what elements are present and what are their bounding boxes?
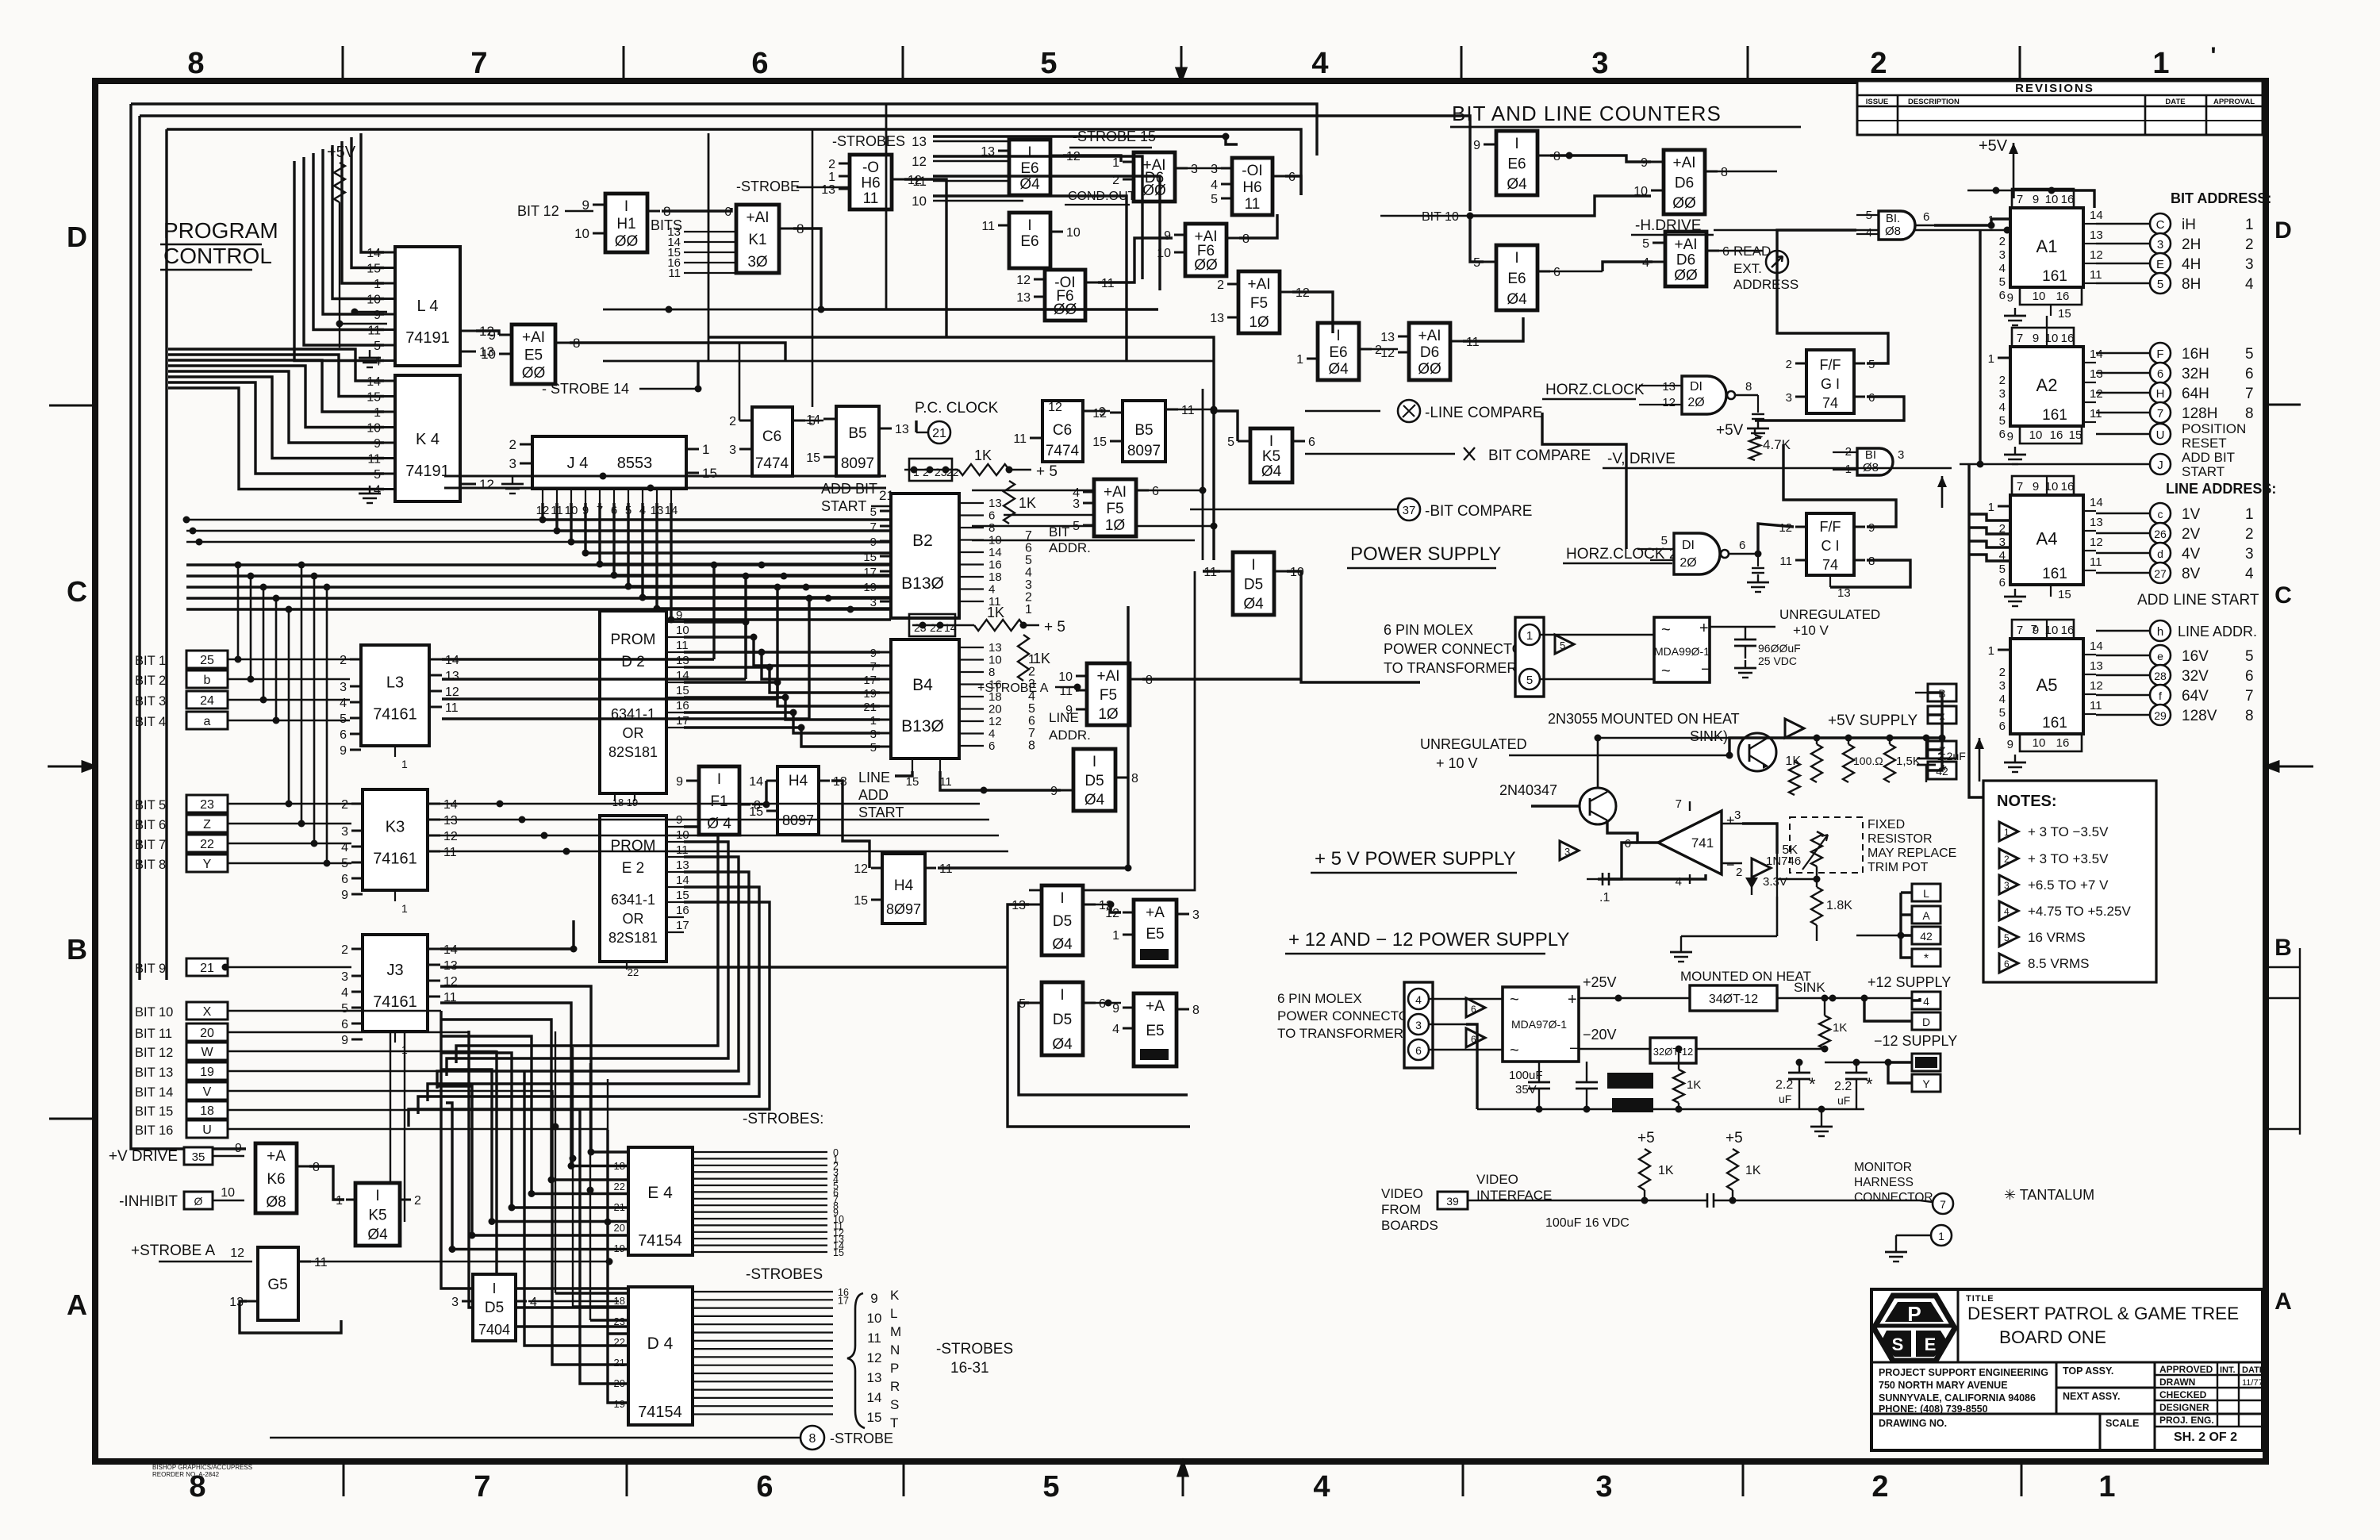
- svg-text:2: 2: [1736, 866, 1742, 879]
- svg-text:12: 12: [854, 862, 868, 876]
- svg-text:3: 3: [1192, 908, 1200, 922]
- svg-text:750 NORTH MARY AVENUE: 750 NORTH MARY AVENUE: [1879, 1380, 2008, 1391]
- AND gate B1 second: [1857, 448, 1893, 475]
- svg-text:A4: A4: [2036, 529, 2058, 549]
- svg-text:BIT AND LINE COUNTERS: BIT AND LINE COUNTERS: [1452, 102, 1722, 125]
- svg-text:F: F: [2156, 348, 2163, 361]
- svg-text:11: 11: [1181, 404, 1195, 417]
- svg-text:uF: uF: [1779, 1093, 1791, 1105]
- svg-text:TITLE: TITLE: [1966, 1294, 1994, 1304]
- svg-text:3: 3: [729, 444, 736, 457]
- svg-text:6341-1: 6341-1: [611, 892, 655, 908]
- svg-text:1K: 1K: [1019, 495, 1036, 511]
- svg-text:1.8K: 1.8K: [1826, 899, 1852, 912]
- svg-text:ØØ: ØØ: [1418, 361, 1441, 378]
- svg-text:13: 13: [1380, 331, 1395, 344]
- svg-text:1K: 1K: [1833, 1021, 1847, 1035]
- svg-text:Y: Y: [203, 858, 212, 871]
- svg-text:6: 6: [1415, 1044, 1422, 1057]
- svg-text:9: 9: [2033, 193, 2039, 206]
- svg-text:B13Ø: B13Ø: [901, 574, 944, 593]
- wire molex-mda990: [1540, 634, 1654, 636]
- IC F1 inv: [699, 766, 739, 835]
- svg-text:3: 3: [1734, 808, 1741, 822]
- svg-text:16: 16: [676, 904, 689, 917]
- svg-text:+AI: +AI: [1672, 155, 1695, 171]
- wire E6-D6 right: [1550, 156, 1651, 162]
- wire c6 b5 verticals: [739, 343, 741, 421]
- svg-text:+4.75 TO +5.25V: +4.75 TO +5.25V: [2028, 904, 2131, 919]
- wire horz clock lines: [1542, 413, 1626, 549]
- svg-text:OR: OR: [623, 911, 644, 927]
- svg-text:BIT 10: BIT 10: [1422, 210, 1459, 224]
- svg-text:7: 7: [2017, 624, 2023, 637]
- svg-text:74161: 74161: [373, 851, 417, 868]
- svg-text:13: 13: [867, 1370, 882, 1385]
- svg-text:ADDR.: ADDR.: [1049, 540, 1091, 555]
- svg-text:TRIM POT: TRIM POT: [1868, 861, 1929, 874]
- IC D6 and top: [1134, 152, 1175, 202]
- svg-text:5: 5: [340, 712, 347, 726]
- svg-text:*: *: [1940, 762, 1947, 780]
- IC B2 8130: [891, 493, 959, 618]
- E2 bottom pin: [626, 962, 628, 970]
- svg-text:2.2uF: 2.2uF: [1937, 750, 1966, 762]
- svg-text:16: 16: [2056, 736, 2070, 750]
- svg-text:5: 5: [1642, 237, 1649, 251]
- svg-text:16-31: 16-31: [950, 1360, 989, 1377]
- svg-text:6: 6: [340, 728, 347, 742]
- resistor 1.5K upper: [1789, 762, 1800, 795]
- IC D6 and right: [1664, 150, 1705, 214]
- svg-text:H4: H4: [789, 773, 808, 789]
- svg-text:6: 6: [1308, 436, 1315, 449]
- svg-text:D6: D6: [1675, 175, 1694, 192]
- svg-text:A: A: [2274, 1288, 2292, 1315]
- ground ps mid: [1680, 944, 1682, 952]
- svg-text:15: 15: [854, 894, 868, 908]
- svg-text:3: 3: [451, 1296, 459, 1309]
- svg-text:7474: 7474: [1046, 443, 1080, 459]
- svg-text:H6: H6: [1242, 179, 1261, 196]
- wire j3 pin14: [440, 920, 574, 949]
- wire top bus 2: [140, 116, 1470, 211]
- svg-text:MDA97Ø-1: MDA97Ø-1: [1511, 1018, 1567, 1031]
- svg-text:K5: K5: [368, 1208, 386, 1224]
- svg-text:-STROBES:: -STROBES:: [743, 1111, 823, 1127]
- svg-text:5: 5: [1999, 414, 2006, 428]
- svg-text:1,5K: 1,5K: [1896, 755, 1921, 768]
- svg-text:S: S: [890, 1397, 899, 1412]
- IC K5 inv: [1250, 428, 1292, 482]
- svg-text:35: 35: [192, 1150, 205, 1164]
- svg-text:I: I: [1514, 136, 1518, 152]
- svg-text:10: 10: [867, 1311, 882, 1326]
- IC K5 inv bottom: [355, 1183, 400, 1246]
- svg-text:D5: D5: [1084, 773, 1104, 789]
- svg-text:BIT 12: BIT 12: [135, 1046, 173, 1060]
- IC H4 8097 b: [882, 854, 925, 924]
- svg-text:12: 12: [1048, 401, 1062, 414]
- svg-text:32V: 32V: [2182, 668, 2209, 685]
- svg-text:B4: B4: [912, 676, 933, 694]
- IC D5 inv b4: [1073, 749, 1115, 811]
- svg-text:26: 26: [2154, 528, 2167, 540]
- svg-text:1: 1: [2004, 827, 2010, 838]
- wire strobe13 run: [933, 136, 1238, 144]
- svg-text:-V, DRIVE: -V, DRIVE: [1607, 451, 1676, 467]
- svg-text:OR: OR: [623, 725, 644, 741]
- regulator 320T-12: [1650, 1038, 1696, 1063]
- svg-text:28: 28: [2154, 670, 2167, 682]
- wire molex2 wires: [1429, 998, 1503, 1000]
- svg-text:3: 3: [1025, 578, 1032, 592]
- svg-text:MONITOR: MONITOR: [1854, 1161, 1912, 1174]
- svg-text:6: 6: [1028, 715, 1035, 728]
- svg-text:Ø8: Ø8: [1885, 225, 1901, 238]
- wire +25 rail: [1579, 997, 1690, 999]
- wire strobeA long: [311, 1261, 609, 1262]
- svg-text:1: 1: [913, 466, 919, 478]
- svg-text:K: K: [890, 1288, 900, 1303]
- svg-text:5: 5: [2004, 932, 2010, 943]
- svg-text:14: 14: [2090, 209, 2103, 222]
- wire strobeA to f5: [1076, 687, 1077, 690]
- svg-text:Ø4: Ø4: [1052, 1036, 1073, 1053]
- svg-text:1: 1: [2098, 1470, 2115, 1504]
- svg-text:+12 SUPPLY: +12 SUPPLY: [1868, 974, 1951, 990]
- IC L3 74161: [361, 645, 429, 746]
- svg-text:DATE: DATE: [2165, 98, 2185, 106]
- svg-text:8: 8: [988, 521, 995, 535]
- B2 right pins: [959, 502, 984, 504]
- svg-text:3: 3: [1191, 163, 1198, 176]
- svg-text:+ 5 V POWER SUPPLY: + 5 V POWER SUPPLY: [1315, 848, 1516, 870]
- svg-text:-H.DRIVE: -H.DRIVE: [1635, 217, 1701, 234]
- B4 top pin boxes: [909, 614, 955, 636]
- resistor pullup +5V: [334, 163, 345, 202]
- svg-text:Ø4: Ø4: [367, 1227, 388, 1243]
- svg-text:−: −: [1569, 1040, 1579, 1058]
- svg-text:42: 42: [1920, 930, 1933, 943]
- svg-text:BIT 9: BIT 9: [135, 962, 166, 976]
- svg-text:3: 3: [1564, 846, 1570, 858]
- svg-text:6: 6: [1025, 542, 1032, 555]
- svg-text:+25V: +25V: [1583, 974, 1617, 990]
- svg-text:E 4: E 4: [647, 1184, 673, 1202]
- svg-text:a: a: [204, 715, 211, 728]
- wire f1-h4: [752, 804, 766, 805]
- svg-text:6: 6: [1099, 997, 1106, 1011]
- svg-text:4: 4: [1866, 226, 1872, 240]
- svg-text:15: 15: [863, 551, 877, 564]
- svg-text:~: ~: [1510, 991, 1519, 1008]
- wire left vertical bundle: [237, 565, 240, 659]
- svg-text:6: 6: [1999, 289, 2006, 302]
- wire pm12 bottom rail: [1477, 1108, 1864, 1110]
- svg-text:9: 9: [870, 536, 877, 549]
- NAND gate D1 top: [1682, 376, 1726, 414]
- svg-text:E 2: E 2: [622, 860, 645, 877]
- svg-text:~: ~: [1661, 621, 1671, 639]
- title block: [1871, 1289, 2263, 1450]
- svg-text:7: 7: [870, 520, 877, 534]
- svg-text:I: I: [492, 1281, 496, 1296]
- svg-text:2.2: 2.2: [1775, 1078, 1793, 1092]
- wire conn ties 2: [1901, 913, 1912, 916]
- svg-text:15: 15: [749, 805, 763, 819]
- svg-text:4: 4: [1415, 993, 1422, 1006]
- svg-text:BISHOP GRAPHICS/ACCUPRESS: BISHOP GRAPHICS/ACCUPRESS: [152, 1464, 252, 1471]
- svg-text:J 4: J 4: [567, 455, 589, 472]
- svg-text:12: 12: [988, 715, 1002, 728]
- svg-text:-OI: -OI: [1242, 163, 1262, 179]
- svg-text:10: 10: [221, 1186, 235, 1200]
- svg-text:8V: 8V: [2182, 566, 2201, 582]
- svg-text:7474: 7474: [755, 455, 789, 472]
- wire strobe11 run: [933, 176, 1160, 290]
- svg-text:7: 7: [474, 1470, 490, 1504]
- svg-text:13: 13: [676, 858, 689, 872]
- svg-text:11: 11: [867, 1331, 881, 1346]
- svg-text:13: 13: [988, 497, 1002, 510]
- svg-text:X: X: [203, 1005, 212, 1019]
- svg-text:c: c: [2158, 508, 2163, 520]
- svg-text:D5: D5: [485, 1300, 504, 1316]
- svg-text:✳ TANTALUM: ✳ TANTALUM: [2004, 1187, 2094, 1203]
- svg-text:9: 9: [2007, 291, 2013, 305]
- svg-text:A5: A5: [2036, 675, 2058, 695]
- wire E6 to D6 3: [1372, 348, 1398, 350]
- svg-text:K 4: K 4: [416, 431, 440, 448]
- node video out 7: [1933, 1193, 1953, 1214]
- svg-text:12: 12: [2090, 679, 2103, 693]
- svg-text:10: 10: [481, 347, 496, 362]
- svg-text:ØØ: ØØ: [1672, 195, 1696, 212]
- svg-text:13: 13: [2090, 367, 2103, 381]
- svg-text:R: R: [890, 1379, 900, 1394]
- svg-text:ØØ: ØØ: [522, 365, 546, 382]
- IC E4 74154: [628, 1147, 693, 1255]
- svg-text:14: 14: [749, 775, 763, 789]
- svg-text:2: 2: [1871, 1470, 1888, 1504]
- svg-text:5: 5: [1040, 47, 1057, 80]
- svg-text:+AI: +AI: [1418, 328, 1441, 344]
- svg-text:13: 13: [2090, 229, 2103, 242]
- svg-text:-STROBE: -STROBE: [830, 1431, 893, 1446]
- svg-text:10: 10: [1290, 566, 1304, 579]
- svg-text:17: 17: [838, 1295, 849, 1306]
- svg-text:13: 13: [988, 641, 1002, 655]
- wire j3 bottom drop: [390, 1031, 391, 1183]
- svg-text:F5: F5: [1106, 501, 1123, 517]
- svg-text:11: 11: [1779, 555, 1792, 568]
- svg-text:C I: C I: [1821, 538, 1839, 554]
- svg-text:12: 12: [230, 1246, 244, 1260]
- svg-text:10: 10: [2033, 736, 2046, 750]
- svg-text:74191: 74191: [405, 463, 450, 480]
- svg-text:L: L: [890, 1306, 897, 1321]
- svg-text:4H: 4H: [2182, 256, 2201, 273]
- svg-text:+ 3 TO +3.5V: + 3 TO +3.5V: [2028, 851, 2109, 866]
- svg-text:A: A: [1922, 909, 1930, 922]
- svg-text:b: b: [204, 674, 211, 687]
- svg-text:B: B: [2274, 935, 2292, 961]
- svg-text:37: 37: [1403, 504, 1416, 517]
- IC E6 inv lower right: [1496, 245, 1537, 310]
- svg-text:4: 4: [1999, 262, 2006, 275]
- svg-text:2: 2: [923, 466, 929, 478]
- svg-text:2.2: 2.2: [1834, 1080, 1852, 1093]
- IC K6 and: [255, 1143, 297, 1213]
- svg-text:8: 8: [809, 1432, 816, 1446]
- svg-text:25: 25: [200, 654, 214, 667]
- svg-text:23: 23: [614, 1315, 625, 1327]
- svg-text:1K: 1K: [987, 605, 1004, 620]
- svg-text:4: 4: [988, 728, 995, 741]
- IC A5 161: [2010, 639, 2083, 734]
- IC F6 and: [1185, 224, 1226, 276]
- svg-text:I: I: [1514, 250, 1518, 267]
- svg-text:E6: E6: [1507, 156, 1526, 173]
- wire d5-e5 b: [1096, 1002, 1121, 1004]
- svg-text:C6: C6: [762, 428, 781, 445]
- svg-text:11: 11: [443, 846, 457, 859]
- ground A4: [2014, 589, 2016, 597]
- svg-text:8.5 VRMS: 8.5 VRMS: [2028, 956, 2089, 971]
- svg-text:10: 10: [912, 194, 927, 209]
- resistor 1K video a: [1639, 1149, 1650, 1190]
- wire K1 output run: [793, 229, 1158, 309]
- svg-text:6: 6: [2004, 958, 2010, 970]
- svg-text:2: 2: [1999, 235, 2006, 248]
- svg-text:2: 2: [2245, 526, 2254, 543]
- svg-text:1: 1: [2152, 47, 2169, 80]
- svg-text:5: 5: [1025, 554, 1032, 567]
- IC G5: [258, 1247, 298, 1320]
- svg-text:-BIT COMPARE: -BIT COMPARE: [1425, 503, 1532, 520]
- svg-text:+AI: +AI: [1096, 668, 1119, 685]
- svg-text:3: 3: [1999, 387, 2006, 401]
- svg-text:4: 4: [2245, 566, 2254, 582]
- svg-text:A2: A2: [2036, 375, 2058, 395]
- svg-text:3: 3: [1999, 248, 2006, 262]
- svg-text:9: 9: [1050, 785, 1058, 798]
- svg-text:+5V: +5V: [1716, 422, 1744, 439]
- svg-text:13: 13: [821, 183, 835, 197]
- svg-text:2Ø: 2Ø: [1687, 396, 1704, 409]
- svg-text:E6: E6: [1329, 344, 1347, 361]
- wire L4-E5: [476, 331, 499, 335]
- svg-text:3: 3: [2245, 546, 2254, 563]
- wire E6-D6 lower: [1550, 271, 1603, 272]
- svg-text:8: 8: [1131, 772, 1138, 785]
- svg-text:+: +: [1568, 991, 1577, 1008]
- svg-text:2: 2: [341, 943, 348, 957]
- wire g5 loop: [240, 1301, 341, 1333]
- svg-text:POWER CONNECTOR: POWER CONNECTOR: [1384, 641, 1534, 657]
- svg-text:I: I: [1027, 144, 1031, 161]
- svg-text:P.C. CLOCK: P.C. CLOCK: [915, 400, 999, 417]
- svg-text:2H: 2H: [2182, 236, 2201, 253]
- wire E5 out: [570, 343, 785, 361]
- svg-text:DESERT PATROL & GAME TREE: DESERT PATROL & GAME TREE: [1967, 1304, 2239, 1323]
- svg-text:6: 6: [1722, 245, 1729, 259]
- revisions table: [1857, 81, 2263, 135]
- svg-text:APPROVED: APPROVED: [2159, 1364, 2213, 1375]
- svg-text:8097: 8097: [841, 455, 874, 472]
- node line compare: [1398, 400, 1420, 422]
- svg-text:7: 7: [2157, 407, 2163, 421]
- ground J4: [512, 476, 513, 484]
- note triangle ps3: [1560, 841, 1579, 860]
- wire bus D2 to B4: [684, 622, 880, 652]
- ground A2: [2014, 447, 2016, 455]
- svg-text:SINK: SINK: [1794, 980, 1825, 995]
- svg-text:5: 5: [2245, 648, 2254, 665]
- svg-text:V: V: [203, 1085, 212, 1099]
- arrow a5 feed: [1979, 738, 1981, 782]
- resistor 5K trim: [1811, 831, 1822, 866]
- wire pair block frame: [1008, 904, 1190, 1127]
- wire bus mid extensions: [186, 519, 544, 521]
- A2 bottom pins: [2020, 426, 2082, 444]
- svg-text:BI.: BI.: [1886, 212, 1900, 225]
- svg-text:5: 5: [341, 1002, 348, 1016]
- svg-text:I: I: [1060, 890, 1064, 907]
- line address outputs A2: [2096, 352, 2150, 354]
- svg-text:LINE ADDRESS:: LINE ADDRESS:: [2166, 481, 2276, 497]
- svg-text:11: 11: [445, 701, 459, 715]
- +12 connector boxes: [1912, 992, 1940, 1009]
- svg-text:BIT 10: BIT 10: [135, 1005, 173, 1020]
- D2 right pins: [666, 621, 684, 623]
- wire a1 top feed: [2012, 190, 2014, 198]
- svg-text:uF: uF: [1837, 1094, 1850, 1107]
- svg-text:P: P: [890, 1361, 899, 1376]
- svg-text:f: f: [2159, 689, 2162, 702]
- svg-text:2: 2: [1999, 666, 2006, 679]
- wire unreg to transistor: [1509, 755, 1729, 756]
- svg-text:+AI: +AI: [1674, 236, 1697, 253]
- E2 right pins: [666, 826, 684, 828]
- resistor 1.5K ps: [1884, 744, 1895, 782]
- svg-text:14: 14: [2090, 639, 2103, 653]
- B4 bottom pins: [912, 758, 913, 771]
- svg-text:MDA99Ø-1: MDA99Ø-1: [1654, 645, 1710, 658]
- svg-text:RESET: RESET: [2182, 436, 2227, 451]
- svg-text:14: 14: [2090, 348, 2103, 361]
- svg-text:39: 39: [1446, 1195, 1459, 1208]
- svg-text:14: 14: [988, 546, 1002, 559]
- svg-text:13: 13: [1016, 291, 1031, 305]
- svg-text:BIT 6: BIT 6: [135, 818, 166, 832]
- svg-text:.1: .1: [1599, 891, 1610, 904]
- svg-text:DESCRIPTION: DESCRIPTION: [1908, 98, 1960, 106]
- svg-text:7: 7: [2245, 688, 2254, 705]
- svg-text:2: 2: [340, 654, 347, 667]
- svg-text:I: I: [375, 1188, 379, 1204]
- svg-text:6: 6: [1739, 539, 1745, 552]
- svg-text:DI: DI: [1690, 380, 1702, 394]
- svg-text:L 4: L 4: [416, 298, 438, 315]
- svg-text:DRAWN: DRAWN: [2159, 1377, 2195, 1388]
- svg-text:100uF 16 VDC: 100uF 16 VDC: [1545, 1216, 1630, 1230]
- wire mesh h455: [603, 360, 1214, 363]
- svg-text:14: 14: [944, 621, 957, 634]
- svg-text:2V: 2V: [2182, 526, 2201, 543]
- svg-text:−: −: [1701, 661, 1710, 678]
